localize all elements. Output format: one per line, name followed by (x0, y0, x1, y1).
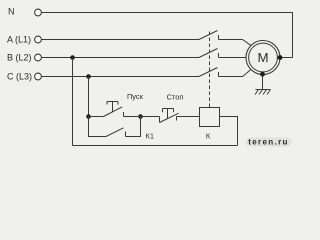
junction on B (L2) (70, 55, 75, 60)
junction control left (86, 114, 91, 119)
svg-text:К1: К1 (146, 132, 155, 141)
wire A (L1) to contact (42, 39, 200, 41)
wire N from terminal to right edge, down, to motor (42, 13, 293, 58)
junction motor frame (260, 72, 265, 77)
svg-text:C (L3): C (L3) (7, 72, 32, 82)
wire B (L2) to contact (42, 57, 200, 59)
wire bottom rail (73, 145, 238, 147)
contactor main contact K phase C (199, 68, 219, 77)
wire B (L2) drop to bottom rail (72, 58, 74, 146)
terminal B (35, 54, 42, 61)
svg-text:A (L1): A (L1) (7, 35, 31, 45)
junction control right (138, 114, 143, 119)
wire contact A to motor (219, 40, 252, 46)
svg-text:Пуск: Пуск (127, 92, 144, 101)
svg-text:N: N (8, 7, 15, 17)
pushbutton Stop NC contact (160, 113, 200, 122)
pushbutton Pusk plunger (107, 102, 118, 112)
ground earth symbol (255, 90, 271, 95)
wire motor frame to earth (262, 75, 264, 90)
contactor coil K (200, 108, 220, 127)
motor M (246, 41, 280, 75)
contactor main contact K phase A (199, 31, 219, 40)
terminal C (35, 73, 42, 80)
svg-text:M: M (257, 50, 268, 65)
wire contact B to motor (219, 57, 247, 59)
wire C (L3) drop to control (88, 77, 90, 117)
svg-text:teren.ru: teren.ru (248, 138, 289, 147)
pushbutton Pusk NO contact (89, 107, 141, 117)
auxiliary contact K1 (89, 117, 141, 137)
junction motor to neutral (278, 55, 283, 60)
wire contact C to motor (219, 69, 252, 76)
svg-text:Стоп: Стоп (167, 92, 184, 101)
pushbutton Stop plunger (163, 109, 174, 119)
contactor main contact K phase B (199, 49, 219, 58)
wire C (L3) to contact (42, 76, 200, 78)
terminal N (35, 9, 42, 16)
junction on C (L3) (86, 74, 91, 79)
watermark teren.ru (246, 138, 292, 147)
svg-text:К: К (206, 132, 211, 141)
mechanical linkage dashed line (209, 32, 211, 108)
wire control to Stop (141, 116, 160, 118)
terminal A (35, 36, 42, 43)
wire bottom rail up to coil K (220, 117, 238, 146)
svg-text:B (L2): B (L2) (7, 53, 32, 63)
